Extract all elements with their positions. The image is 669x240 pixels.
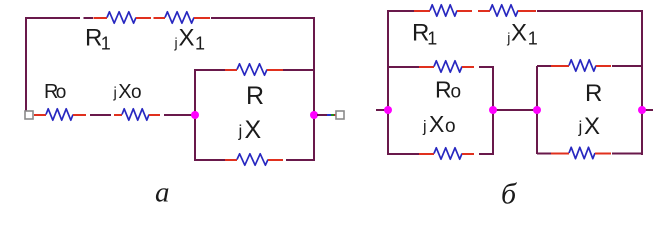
svg-text:R: R xyxy=(435,77,452,103)
svg-text:R: R xyxy=(585,80,602,107)
svg-text:R: R xyxy=(246,82,264,110)
svg-text:а: а xyxy=(155,177,170,209)
svg-text:б: б xyxy=(501,178,517,211)
svg-text:j: j xyxy=(578,118,583,137)
svg-text:X: X xyxy=(118,81,131,103)
svg-text:o: o xyxy=(451,82,462,103)
svg-text:j: j xyxy=(174,35,178,51)
svg-text:o: o xyxy=(445,116,456,137)
svg-text:1: 1 xyxy=(427,28,437,48)
svg-text:X: X xyxy=(179,25,195,52)
svg-text:1: 1 xyxy=(195,33,205,53)
svg-text:j: j xyxy=(506,30,510,46)
svg-text:X: X xyxy=(511,19,527,46)
svg-text:o: o xyxy=(131,82,142,103)
svg-text:X: X xyxy=(245,116,262,144)
svg-text:R: R xyxy=(85,25,102,52)
svg-text:j: j xyxy=(113,85,117,102)
svg-text:1: 1 xyxy=(101,33,111,53)
svg-text:X: X xyxy=(429,111,444,137)
svg-text:1: 1 xyxy=(528,28,538,48)
svg-text:X: X xyxy=(584,113,600,140)
svg-text:j: j xyxy=(422,119,427,136)
svg-text:o: o xyxy=(56,82,67,103)
svg-text:j: j xyxy=(238,122,243,141)
